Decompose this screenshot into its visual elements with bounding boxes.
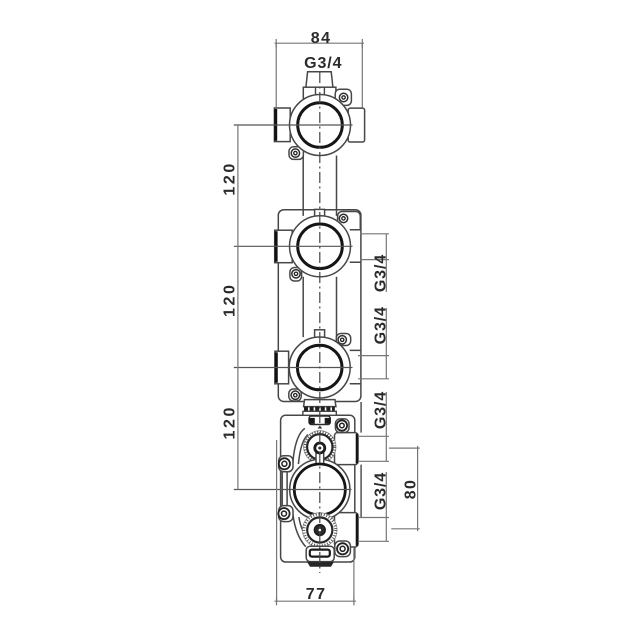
- collar above thermostat plate: [303, 411, 336, 415]
- svg-text:G3/4: G3/4: [372, 306, 389, 344]
- horizontal centerline valve2: [234, 245, 353, 247]
- threaded stub G3/4 top: [306, 72, 333, 87]
- port left valve1: [274, 108, 290, 142]
- dimension 80: [389, 448, 420, 529]
- stem above valve2: [315, 209, 325, 220]
- svg-text:G3/4: G3/4: [372, 254, 389, 292]
- thermostat big circle bold: [294, 464, 345, 515]
- extension lines 84: [275, 43, 277, 107]
- bottom slot: [310, 550, 330, 557]
- ear top-right valve1: [335, 89, 351, 105]
- ear top-right valve3: [336, 334, 350, 346]
- horizontal centerline valve3: [234, 367, 353, 369]
- valve2 inner circle: [298, 224, 343, 269]
- valve1 outer circle: [290, 95, 351, 156]
- crescent lever outer: [293, 428, 306, 546]
- plate between valve2 and valve3: [278, 210, 361, 402]
- collar of valve1: [303, 87, 336, 101]
- right body edge segments: [360, 402, 362, 518]
- knurled joint band: [304, 407, 335, 411]
- dimension 84 line: [275, 42, 365, 44]
- bore lines in collar: [316, 87, 325, 100]
- bracket rail left ears: [282, 468, 287, 509]
- collar under valve3: [304, 400, 336, 407]
- horizontal centerline thermostat: [234, 489, 352, 491]
- port right valve2: [350, 230, 361, 262]
- thermostat housing plate: [281, 415, 355, 562]
- port right valve3: [350, 350, 361, 383]
- port left valve2: [275, 230, 293, 263]
- svg-text:120: 120: [222, 283, 239, 318]
- dimension 77: [275, 600, 357, 602]
- svg-text:G3/4: G3/4: [372, 472, 389, 510]
- ear lower-left thermostat: [279, 506, 293, 522]
- svg-text:G3/4: G3/4: [304, 55, 342, 72]
- svg-text:120: 120: [222, 405, 239, 440]
- vertical dash-dot centerline: [319, 72, 321, 573]
- ear top-right valve2: [338, 212, 361, 229]
- port upper-right thermostat: [335, 433, 359, 465]
- port left valve3: [275, 351, 289, 384]
- port lower-right thermostat: [335, 513, 359, 547]
- left dimension line 120 column: [237, 125, 239, 490]
- bottom tab: [306, 546, 334, 561]
- bottom dark base: [307, 562, 334, 567]
- valve2 outer circle: [290, 216, 351, 277]
- ear top-right thermostat: [335, 419, 349, 433]
- pointer triangle: [318, 426, 323, 429]
- right dimension line segments: [385, 234, 387, 542]
- svg-text:120: 120: [222, 161, 239, 196]
- port right valve1: [348, 108, 364, 142]
- ear upper-left thermostat: [279, 456, 293, 472]
- valve1 inner circle: [298, 103, 343, 148]
- ear bottom-left valve3: [289, 389, 301, 401]
- svg-text:77: 77: [306, 586, 327, 603]
- cartridge knurled circle upper: [304, 431, 336, 463]
- cartridge stem: [316, 448, 324, 465]
- stem above valve3: [315, 330, 325, 341]
- ear bottom-left valve2: [290, 268, 302, 282]
- crescent lever inner: [298, 435, 309, 540]
- valve3 inner circle: [297, 345, 342, 390]
- right ticks: [358, 234, 389, 542]
- cartridge hub dark: [315, 443, 325, 453]
- horizontal centerline valve1: [234, 124, 353, 126]
- ear bottom-left valve1: [289, 147, 303, 160]
- connecting strip v2-v3: [303, 277, 336, 337]
- thermostat big circle outer: [290, 459, 350, 519]
- connecting strip v1-v2: [303, 156, 336, 216]
- svg-text:80: 80: [402, 479, 419, 500]
- ear bottom-right thermostat: [335, 541, 351, 557]
- knurled circle lower: [303, 513, 338, 548]
- valve3 outer circle: [289, 337, 350, 398]
- lower hub dark: [314, 525, 325, 536]
- svg-text:84: 84: [311, 30, 332, 47]
- slot top of thermostat: [309, 416, 330, 425]
- svg-text:G3/4: G3/4: [372, 391, 389, 429]
